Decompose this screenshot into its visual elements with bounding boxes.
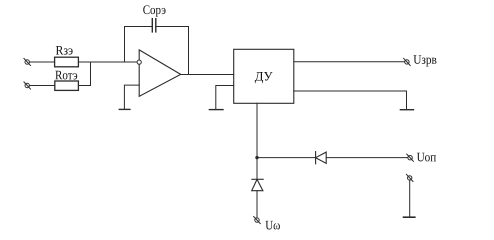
svg-text:ДУ: ДУ — [255, 69, 274, 84]
node junction — [255, 156, 258, 159]
wire ДУ lower right output — [294, 91, 407, 109]
diode VD2 — [252, 179, 264, 190]
svg-text:Uоп: Uоп — [417, 149, 437, 164]
resistor Rзэ — [55, 43, 79, 67]
wire junction to diode VD1 — [257, 157, 316, 159]
terminal Uω — [254, 217, 281, 233]
wire Rотэ to node — [78, 62, 90, 86]
ground op-amp input — [119, 108, 130, 110]
svg-text:Rзэ: Rзэ — [55, 43, 73, 58]
wire op-amp output — [181, 74, 234, 76]
wire Rзэ to op-amp input — [78, 61, 137, 63]
svg-text:Uω: Uω — [265, 217, 280, 232]
diode VD1 — [316, 152, 327, 164]
wire ДУ to Uзрв — [294, 61, 405, 63]
ground ДУ — [209, 109, 223, 111]
wire ДУ ground lead — [216, 86, 234, 110]
ground bottom right — [404, 216, 415, 218]
svg-text:Сорэ: Сорэ — [143, 2, 167, 17]
wire op-amp lower input — [124, 85, 139, 109]
wire ДУ bottom output — [256, 103, 258, 157]
svg-text:Uзрв: Uзрв — [413, 52, 437, 67]
terminal Uзрв — [404, 52, 437, 67]
terminal input 2 — [24, 82, 31, 89]
terminal reference right — [406, 174, 413, 181]
op-amp U1 — [137, 50, 181, 96]
terminal Uоп — [407, 149, 437, 164]
resistor Rотэ — [55, 67, 79, 90]
ground right — [400, 109, 413, 111]
wire VD2 to Uω — [256, 191, 258, 218]
svg-text:Rотэ: Rотэ — [55, 67, 78, 82]
wire feedback right riser — [156, 27, 189, 75]
wire feedback left riser — [125, 27, 153, 63]
block ДУ — [234, 49, 294, 103]
wire VD1 to Uоп — [326, 157, 408, 159]
wire reference to ground — [409, 180, 411, 216]
capacitor Сорэ — [143, 2, 167, 32]
wire junction to diode VD2 — [256, 158, 258, 180]
wire input1 to Rзэ — [29, 61, 54, 63]
wire input2 to Rотэ — [29, 85, 54, 87]
terminal input 1 — [24, 58, 31, 65]
